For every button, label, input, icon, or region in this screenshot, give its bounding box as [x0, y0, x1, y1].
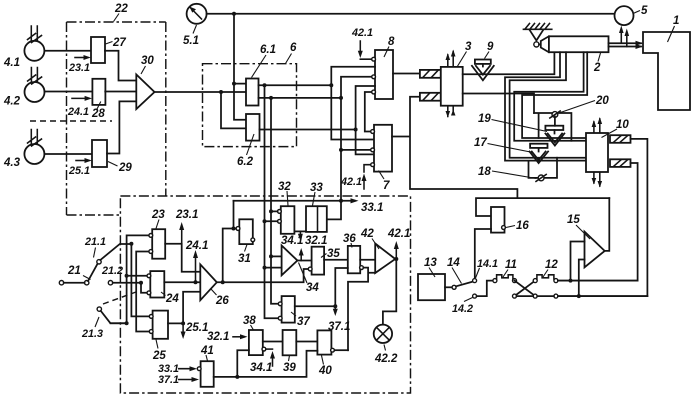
solenoid (hatched) upper of valve 3	[420, 70, 441, 78]
svg-text:26: 26	[215, 295, 229, 307]
wire valve 10 upper solenoid down to contact rail	[557, 139, 647, 296]
wire riser 26 output to block 31 input	[223, 229, 237, 283]
svg-text:22: 22	[114, 3, 128, 15]
pipe cylinder left port down-around (inner)	[510, 52, 586, 158]
leader tick 2	[598, 53, 601, 62]
solenoid (hatched) lower of valve 3	[420, 93, 441, 101]
svg-text:14: 14	[447, 257, 460, 269]
node riser 264.5 at 32 pin2	[263, 219, 267, 223]
wire 36 output to amplifier 42	[360, 259, 375, 261]
block 41	[201, 361, 214, 387]
leader tick 23	[156, 220, 159, 229]
wire sensor 4.3 to block 29	[44, 153, 92, 155]
wire block 7 output to valve 3 lower solenoid and to block 16	[392, 97, 609, 216]
svg-text:3: 3	[465, 41, 472, 53]
svg-text:14.1: 14.1	[477, 258, 498, 270]
block 39	[283, 330, 297, 355]
pin circles of block 8	[372, 57, 376, 61]
sensor 4.1	[24, 26, 44, 61]
svg-text:7: 7	[383, 180, 390, 192]
contact 21.2	[108, 281, 112, 285]
pin of 38	[262, 347, 266, 351]
wire 35 to 36	[324, 259, 348, 261]
leader tick 31	[245, 245, 248, 252]
contact block 12 (bridging contact)	[533, 275, 558, 283]
pin circles of block 7	[371, 130, 375, 134]
output arrow 42.1	[395, 245, 397, 259]
leader tick 5	[633, 11, 640, 14]
hydraulic cylinder 2	[539, 36, 609, 52]
svg-text:27: 27	[112, 37, 126, 49]
wire top contact rail segment to riser	[558, 281, 648, 297]
block 16	[491, 207, 505, 233]
solenoid (hatched) lower right of valve 10	[610, 159, 631, 167]
wire vertical bus v264.5 down to 37 pin2	[265, 85, 281, 318]
leader tick 36	[351, 243, 352, 248]
wire 37 output into 36 lower input	[335, 268, 348, 306]
svg-text:34.1: 34.1	[281, 235, 303, 247]
svg-text:6: 6	[290, 42, 297, 54]
block 6.2	[246, 114, 260, 141]
block 33 (with inner divider)	[306, 206, 327, 232]
node v1 at 21.3 feed	[125, 321, 129, 325]
svg-text:24.1: 24.1	[67, 106, 89, 118]
leader tick 35	[321, 254, 327, 258]
wire amplifier 15 output riser	[605, 198, 610, 251]
leader tick 15	[576, 225, 590, 239]
check valve 18	[538, 175, 544, 181]
valve 3 top drain arrows	[448, 52, 453, 66]
leader tick 14.2	[464, 298, 473, 302]
wire contact rail to amplifier 15 input 1	[571, 242, 585, 281]
leader tick 14.1	[476, 268, 480, 278]
svg-text:24.1: 24.1	[185, 240, 208, 252]
wire amplifier 30 output to block 6.1	[155, 91, 247, 93]
wire riser v331.3: 6.1out1 to 8 conn2 and 7 conn2	[331, 67, 375, 140]
sensor 4.3	[24, 130, 44, 165]
block 27	[91, 37, 105, 63]
svg-text:19: 19	[478, 113, 491, 125]
bus vertical v2	[131, 244, 150, 317]
svg-text:40: 40	[318, 365, 332, 377]
leader tick 33	[313, 192, 316, 206]
wire riser 264.5 into 34 input2	[265, 267, 282, 269]
amplifier 42	[375, 244, 395, 274]
wire riser v365: 8 pin3 to 7 pin1	[365, 92, 372, 132]
pins of 24	[147, 274, 151, 278]
svg-text:32.1: 32.1	[305, 235, 327, 247]
node rail/15 input2	[577, 294, 581, 298]
leader line 20	[559, 101, 595, 114]
node 25.1 tap	[181, 321, 185, 325]
wire 37 output	[295, 305, 336, 307]
svg-text:16: 16	[516, 220, 529, 232]
pipe cylinder 2 to tank 1 (double line with arrows)	[609, 43, 642, 46]
wire 38 pin to 34.1 arrow	[266, 348, 273, 350]
wire 33.1 output line with arrow	[234, 200, 355, 202]
relief valve 9 chevron	[472, 64, 494, 80]
node riser 341 junctions	[339, 96, 343, 100]
pin circle of block 16	[502, 226, 506, 230]
switch 21 pole	[59, 281, 63, 285]
svg-text:42.1: 42.1	[340, 176, 362, 188]
output arrow 23.1	[181, 226, 183, 244]
wire 24 output to amplifier 26	[164, 281, 200, 283]
leader tick 42.2	[384, 345, 386, 351]
dash-dot enclosure of control unit (bottom)	[120, 196, 410, 393]
hydraulic valve 10	[586, 133, 608, 172]
node 26 output	[221, 280, 225, 284]
leader tick 37	[291, 312, 296, 316]
wire 36 pin tap to 42 lower input	[348, 268, 375, 351]
leader line 3	[457, 52, 467, 68]
svg-text:13: 13	[424, 257, 437, 269]
input arrow 42.1 into block 7 bottom pin	[364, 165, 371, 189]
check valve 18 bypass loop	[529, 158, 558, 178]
contact block 11 (bridging contact)	[493, 275, 517, 283]
pivot mount triangle of cylinder 2	[530, 30, 544, 41]
node 37 output tap	[333, 304, 337, 308]
wire riser v341: 8 pin2 / 7 pin2 / 33 output	[327, 77, 372, 220]
svg-text:34: 34	[306, 282, 319, 294]
node: junction into 6.1 upper input	[232, 82, 236, 86]
svg-text:33.1: 33.1	[361, 202, 383, 214]
leader line 17	[488, 144, 534, 153]
node rail/15 input1	[569, 279, 573, 283]
wire gauge 5.1 to pressure line / node	[207, 13, 615, 15]
svg-text:37: 37	[297, 316, 310, 328]
svg-text:25.1: 25.1	[185, 322, 208, 334]
pins of 23	[149, 234, 153, 238]
block 8	[375, 50, 393, 99]
leader tick 32	[287, 191, 288, 206]
svg-text:5.1: 5.1	[183, 35, 199, 47]
leader line 6.1	[252, 55, 267, 78]
pins of 32	[278, 210, 282, 214]
leader tick 12	[543, 270, 548, 278]
contact 12 lower-right	[554, 294, 558, 298]
wire block 29 to amplifier 30	[107, 101, 136, 153]
wire node down to blocks 6.1/6.2	[234, 14, 246, 120]
hydraulic valve 3	[441, 67, 463, 106]
output tap 34.1 up arrow	[300, 252, 302, 261]
leader tick 39	[289, 356, 290, 362]
contact 14.1	[473, 279, 477, 283]
wire 32 to 33	[294, 230, 306, 232]
leader tick 16	[506, 226, 515, 228]
leader tick 7	[379, 171, 385, 180]
svg-text:12: 12	[545, 259, 558, 271]
output arrow 24.1	[195, 254, 197, 282]
svg-text:18: 18	[478, 166, 491, 178]
solenoid (hatched) upper right of valve 10	[610, 135, 631, 143]
svg-text:21.1: 21.1	[84, 236, 106, 248]
svg-text:32: 32	[278, 181, 291, 193]
input arrow 37.1 into block 41	[179, 379, 196, 381]
dash-dot enclosure 6	[203, 64, 297, 147]
svg-text:1: 1	[673, 15, 679, 27]
wire sensor 4.1 to block 27	[44, 50, 91, 52]
leader tick 27	[106, 42, 113, 45]
leader tick 30	[141, 66, 146, 74]
svg-text:25.1: 25.1	[68, 165, 90, 177]
leader tick 26	[211, 289, 217, 295]
crossing wires between 11 and 12	[515, 281, 536, 297]
pivot pin circle	[534, 42, 539, 47]
pin of 31 output	[251, 238, 255, 242]
leader line 6.2	[247, 134, 255, 155]
wire contact 14.2 to contact block 11	[477, 281, 493, 297]
signal lamp 42.2	[374, 325, 392, 343]
block 37	[282, 296, 295, 323]
wire 34 output to block 35	[297, 260, 311, 262]
pin of 40	[331, 348, 335, 352]
svg-text:23.1: 23.1	[68, 62, 90, 74]
svg-text:4.2: 4.2	[3, 96, 21, 108]
wire valve 10 lower solenoid down to contact rail	[557, 163, 637, 281]
input arrow 42.1 into block 8 top pin	[360, 41, 371, 59]
block 24	[150, 271, 164, 297]
pin of 36	[360, 266, 364, 270]
input arrow 34.1 into 38 pin node	[272, 355, 274, 366]
block 25	[153, 311, 168, 339]
svg-text:42: 42	[360, 228, 374, 240]
block 7	[374, 125, 392, 172]
block 23	[152, 229, 165, 259]
leader tick 25	[156, 340, 158, 349]
pipe valve 3 lower port to check valve 20 loop	[463, 94, 534, 114]
node: junction 30 output branch	[219, 90, 223, 94]
svg-text:23: 23	[151, 209, 165, 221]
leader tick 5.1	[193, 25, 197, 34]
leader tick 6	[286, 54, 292, 64]
wire 25 output to amplifier 26	[168, 292, 200, 324]
gauge 5.1	[187, 4, 207, 24]
svg-text:6.2: 6.2	[237, 156, 254, 168]
node riser 355.6 at 6.2 line	[354, 128, 358, 132]
svg-text:32.1: 32.1	[207, 331, 229, 343]
sensor 4.2	[25, 68, 45, 103]
node 41 output to 38	[235, 375, 239, 379]
svg-text:33: 33	[310, 182, 323, 194]
pipe cylinder left port down-around to valve stack (outer)	[505, 52, 586, 160]
block 40	[317, 330, 331, 354]
switch 14 moving contact	[452, 285, 456, 289]
svg-text:4.3: 4.3	[3, 157, 21, 169]
wire 38 to 39	[263, 341, 283, 343]
leader tick 14	[452, 268, 462, 284]
leader tick 1	[668, 26, 675, 42]
svg-text:11: 11	[505, 259, 517, 271]
leader line 18	[492, 171, 537, 179]
bus vertical v4	[141, 283, 147, 293]
wire 6.1 output 1 (to bus riser v264.5 and block 8)	[259, 84, 332, 86]
check valve 20 bypass loop	[534, 113, 571, 141]
dashed mechanical link of switch 21	[103, 292, 136, 304]
leader tick 21.1	[94, 248, 96, 258]
node 24.1 tap	[194, 280, 198, 284]
svg-text:34.1: 34.1	[250, 362, 272, 374]
svg-text:35: 35	[327, 248, 340, 260]
pressure gauge 5	[615, 6, 634, 25]
input arrow 32.1 into block 38	[233, 336, 244, 338]
gauge 5 stem with up arrows	[621, 31, 627, 47]
node v2 at 21 feed	[129, 242, 133, 246]
wire 6.1 output 2 (to riser v271 and block 8)	[259, 97, 342, 99]
wire bottom contact rail segment	[517, 295, 554, 297]
svg-text:5: 5	[641, 5, 648, 17]
pipe: valve 3 upper port to cylinder 2 left port, with relief valve 9	[463, 52, 555, 74]
input arrow 33.1 into block 41	[179, 368, 194, 370]
wire sensor 4.2 to block 28	[45, 91, 93, 93]
valve 10 top drain arrows	[594, 119, 600, 133]
reducing valve 19 plate	[545, 126, 563, 130]
svg-text:10: 10	[616, 119, 629, 131]
wire 6.2 output to node at block 7	[260, 129, 356, 131]
svg-text:6.1: 6.1	[260, 44, 276, 56]
leader tick 8	[384, 47, 389, 58]
wire block 16 output down to switch contact 14.1	[475, 229, 491, 279]
svg-text:30: 30	[141, 55, 154, 67]
svg-text:21.3: 21.3	[81, 328, 103, 340]
svg-text:21.2: 21.2	[101, 265, 123, 277]
svg-text:15: 15	[567, 214, 580, 226]
valve 19 stems	[554, 117, 556, 134]
valve 10 bottom drain arrows	[594, 173, 600, 187]
svg-text:25: 25	[152, 350, 166, 362]
wire 39 to 40	[296, 341, 317, 343]
wire block 13 to switch 14	[445, 286, 452, 288]
block 36	[348, 246, 360, 273]
output arrow 25.1	[182, 323, 184, 335]
leader tick 11	[503, 270, 508, 278]
svg-text:36: 36	[343, 233, 356, 245]
bus vertical v3	[136, 252, 150, 332]
wire contact rail to amplifier 15 input 2	[579, 260, 585, 297]
dash-dot enclosure 22	[67, 22, 166, 215]
wire 23 output / tap 23.1	[165, 244, 200, 272]
node: 6.1 out2 branch	[269, 96, 273, 100]
amplifier 30	[136, 75, 154, 110]
block 28	[92, 79, 105, 105]
stubs from bus risers into 32 pins	[265, 211, 278, 221]
block 38	[249, 330, 263, 355]
pins of 37	[278, 302, 282, 306]
leader tick 21.3	[95, 317, 99, 327]
svg-text:9: 9	[487, 41, 494, 53]
node riser 331.3 at 6.1out1	[329, 83, 333, 87]
svg-text:28: 28	[91, 108, 105, 120]
wire 42 output down to lamp 42.2	[383, 259, 396, 325]
leader tick 21	[83, 276, 91, 280]
pins of 25	[149, 315, 153, 319]
valve 3 bottom drain arrows	[448, 107, 453, 117]
svg-text:20: 20	[595, 95, 609, 107]
contact 21.3	[97, 307, 101, 311]
svg-text:29: 29	[118, 162, 132, 174]
node v4 at 21.2 feed	[139, 281, 143, 285]
block 29	[92, 140, 107, 167]
svg-text:41: 41	[200, 345, 214, 357]
wire 40 output pin to 42 lower input riser	[334, 349, 348, 351]
node 42 output	[394, 257, 398, 261]
valve 17 plate	[530, 144, 547, 148]
amplifier 34	[282, 246, 298, 276]
pin of 31 input	[236, 227, 240, 231]
leader tick 13	[429, 268, 435, 278]
valve 17 stem	[538, 148, 540, 152]
input arrow 25.1 into block 29	[76, 160, 89, 162]
valve 19 chevron	[545, 134, 564, 146]
bus vertical v1	[110, 235, 149, 323]
svg-text:39: 39	[283, 362, 296, 374]
node riser at 31 wire	[232, 227, 236, 231]
leader tick 41	[206, 355, 208, 361]
node riser 271 at 32 pin1	[269, 209, 273, 213]
wire branch down to 6.2 input	[221, 92, 246, 128]
leader tick 40	[322, 356, 324, 365]
svg-text:2: 2	[593, 62, 601, 74]
input arrow 23.1 into block 27	[75, 57, 88, 59]
svg-text:38: 38	[243, 315, 256, 327]
node: junction at top line x=234	[232, 12, 236, 16]
wire 41 output to blocks 38 and 40	[214, 351, 318, 377]
dashed separator between channel 4.2 and 4.3	[30, 120, 112, 122]
svg-text:24: 24	[165, 293, 179, 305]
leader tick 42	[372, 239, 379, 250]
block 32	[281, 206, 295, 234]
wire riser to 33.1 line	[233, 201, 235, 229]
switch 21 blade	[88, 264, 98, 282]
svg-text:31: 31	[238, 253, 251, 265]
wire 7 pin2 stub	[341, 149, 372, 151]
support hatching for cylinder 2	[523, 24, 551, 30]
command unit 13	[418, 274, 445, 300]
wire block 28 to amplifier 30	[105, 91, 136, 93]
leader line 34	[299, 263, 308, 284]
pin of 41	[197, 367, 201, 371]
check valve 20	[552, 112, 558, 118]
amplifier 26	[200, 264, 217, 300]
svg-text:23.1: 23.1	[175, 209, 198, 221]
amplifier 15	[585, 232, 605, 268]
wire riser into 38 lower input	[237, 350, 249, 377]
svg-text:42.2: 42.2	[374, 353, 398, 365]
pipe cylinder right port down-around (inner)	[522, 52, 587, 138]
wire riser v355.6: 6.2out to 8 conn3 and 7 conn3	[356, 86, 375, 154]
pipe cylinder right port down-around (outer)	[514, 52, 586, 141]
svg-text:8: 8	[388, 36, 395, 48]
input arrow 24.1 into block 28	[72, 97, 89, 99]
pin of 35	[308, 267, 312, 271]
leader line 19	[492, 120, 548, 132]
node v1 to 24 pin1	[125, 274, 129, 278]
contact 21.1	[97, 260, 101, 264]
block 35	[312, 247, 325, 275]
valve 17 chevron	[530, 152, 549, 164]
wire block 27 to amplifier 30	[105, 51, 136, 81]
leader tick for 22	[114, 14, 120, 22]
tank 1	[643, 32, 690, 110]
leader tick 10	[602, 129, 618, 138]
leader tick 24	[161, 292, 166, 296]
leader tick 29	[108, 162, 118, 167]
svg-text:42.1: 42.1	[351, 27, 373, 39]
leader tick 28	[97, 102, 101, 111]
svg-text:42.1: 42.1	[387, 228, 410, 240]
leader tick 38	[251, 325, 254, 330]
wire riser 271 into 34 input1	[271, 255, 282, 257]
